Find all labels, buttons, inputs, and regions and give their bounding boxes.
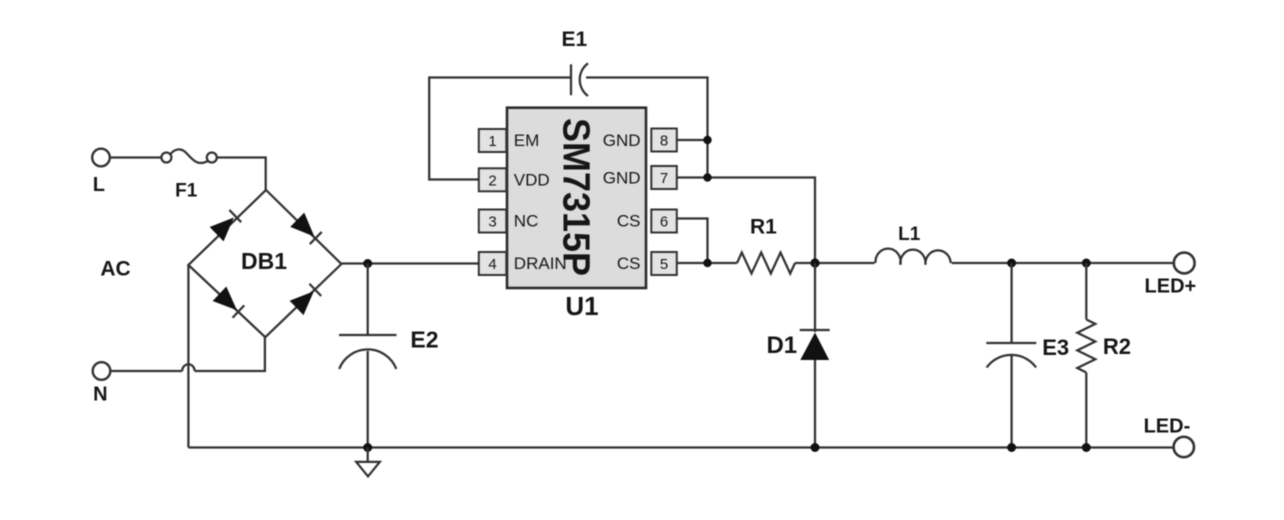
resistor R2 xyxy=(1077,320,1095,373)
pin 3 box xyxy=(479,210,507,233)
node R1/L1/D1 junction xyxy=(810,258,819,267)
svg-text:6: 6 xyxy=(660,214,668,231)
svg-text:VDD: VDD xyxy=(514,170,550,189)
wire D1 to bottom rail xyxy=(814,360,816,448)
node pin5 junction xyxy=(703,259,711,267)
svg-text:L: L xyxy=(93,174,105,196)
terminal LED+ xyxy=(1174,253,1195,274)
svg-text:LED+: LED+ xyxy=(1145,275,1197,297)
wire down to E3 xyxy=(1010,263,1012,343)
inductor L1 xyxy=(875,249,950,265)
svg-text:CS: CS xyxy=(617,254,641,273)
node E3 bottom junction xyxy=(1007,443,1016,452)
node pin7 junction xyxy=(703,173,711,181)
svg-text:GND: GND xyxy=(603,168,641,187)
wire down to R2 xyxy=(1085,263,1087,320)
pin 1 box xyxy=(479,129,507,152)
diode DB1 bottom-left xyxy=(213,286,246,318)
wire R1 to L1 xyxy=(795,262,875,264)
IC U1 body xyxy=(507,108,646,288)
wire pin 8 xyxy=(677,139,708,141)
fuse F1 xyxy=(161,149,216,163)
terminal L xyxy=(92,149,110,167)
svg-text:F1: F1 xyxy=(175,181,198,202)
svg-text:3: 3 xyxy=(488,214,496,231)
svg-text:GND: GND xyxy=(603,131,641,150)
wire R2 to bottom rail xyxy=(1085,373,1087,448)
node E2 bottom junction xyxy=(363,443,372,452)
capacitor E3 xyxy=(986,343,1036,368)
terminal LED- xyxy=(1174,437,1194,457)
wire E1 to right and down to pin7 xyxy=(586,78,708,178)
node pin8 junction xyxy=(703,136,711,144)
wire bridge right vertex to pin 4 xyxy=(341,262,478,264)
svg-text:EM: EM xyxy=(514,131,540,150)
node R2 top junction xyxy=(1082,259,1091,268)
svg-text:E3: E3 xyxy=(1042,335,1069,360)
resistor R1 xyxy=(737,253,795,274)
svg-text:5: 5 xyxy=(660,256,668,273)
diode D1 xyxy=(800,330,830,360)
wire fuse to bridge top xyxy=(217,158,266,191)
capacitor E2 xyxy=(339,335,397,369)
svg-text:L1: L1 xyxy=(898,224,921,245)
wire N to bridge bottom with hop xyxy=(111,337,265,371)
wire pin 7 to D1 node xyxy=(677,178,815,264)
svg-text:AC: AC xyxy=(100,257,130,280)
svg-text:CS: CS xyxy=(617,212,641,231)
svg-text:8: 8 xyxy=(660,133,668,150)
terminal N xyxy=(93,362,111,380)
wire E2 to bottom rail xyxy=(367,351,369,448)
svg-text:1: 1 xyxy=(488,133,496,150)
wire L1 to LED+ xyxy=(952,262,1174,264)
pin 4 box xyxy=(479,252,507,275)
svg-text:DB1: DB1 xyxy=(241,248,287,274)
svg-text:LED-: LED- xyxy=(1144,415,1191,437)
svg-text:E2: E2 xyxy=(410,327,438,353)
node D1 bottom junction xyxy=(811,443,820,452)
wire pin 5 to R1 xyxy=(677,262,737,264)
bridge DB1 diamond xyxy=(188,190,341,337)
svg-text:R1: R1 xyxy=(750,216,777,239)
diode DB1 top-left xyxy=(210,209,243,241)
pin 7 box xyxy=(651,166,677,189)
diode DB1 bottom-right xyxy=(290,283,323,315)
svg-text:U1: U1 xyxy=(565,291,598,321)
wire bottom rail xyxy=(188,446,1173,448)
svg-text:SM7315P: SM7315P xyxy=(555,118,597,276)
wire E3 to bottom rail xyxy=(1010,356,1012,448)
capacitor E1 xyxy=(571,63,588,96)
svg-text:4: 4 xyxy=(488,256,496,273)
wire down to E2 xyxy=(367,264,369,336)
node E3 top junction xyxy=(1007,259,1016,268)
svg-text:7: 7 xyxy=(660,170,668,187)
wire L to fuse xyxy=(110,156,162,158)
pin 5 box xyxy=(651,252,677,275)
svg-text:2: 2 xyxy=(488,172,496,189)
svg-text:D1: D1 xyxy=(766,332,797,359)
svg-text:E1: E1 xyxy=(561,28,587,51)
wire pin 6 down to pin5 net xyxy=(677,219,708,264)
pin 8 box xyxy=(651,129,677,152)
node R2 bottom junction xyxy=(1082,443,1091,452)
pin 2 box xyxy=(479,168,507,191)
wire node down to D1 xyxy=(814,263,816,332)
wire bridge left vertex down xyxy=(187,265,189,448)
svg-text:NC: NC xyxy=(514,212,539,231)
pin 6 box xyxy=(651,210,677,233)
svg-text:R2: R2 xyxy=(1103,334,1131,359)
diode DB1 top-right xyxy=(290,213,323,245)
node E2 top junction xyxy=(363,259,372,268)
ground xyxy=(356,448,380,477)
svg-text:N: N xyxy=(93,384,107,406)
wire pin2 VDD to top xyxy=(429,78,571,180)
